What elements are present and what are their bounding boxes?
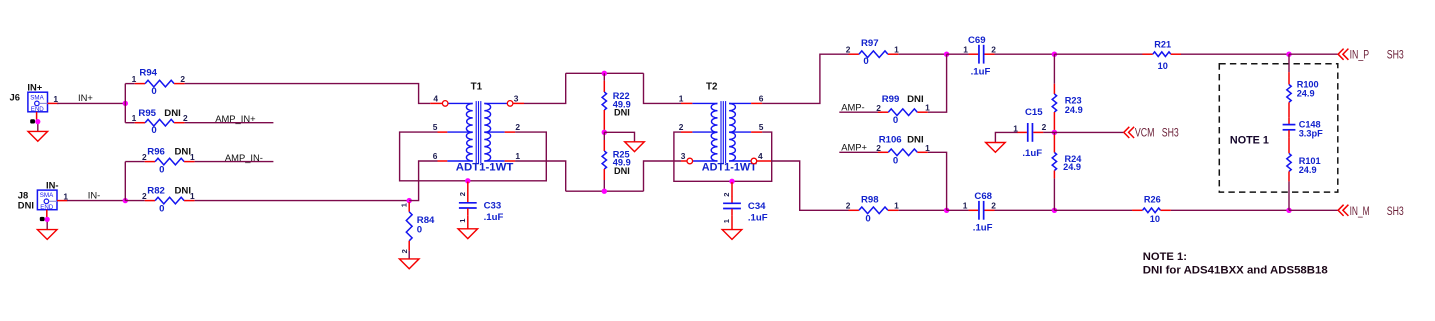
- wire R24 top: [1053, 132, 1055, 134]
- svg-text:24.9: 24.9: [1065, 105, 1083, 115]
- junction node top: [944, 52, 949, 57]
- svg-text:R98: R98: [861, 194, 879, 205]
- wire T2 pin2 loop: [674, 132, 772, 181]
- R100 refdes: [1297, 80, 1319, 90]
- svg-text:0: 0: [151, 86, 156, 97]
- IN_M label: [1350, 204, 1370, 218]
- svg-text:.1uF: .1uF: [973, 222, 993, 233]
- R22 DNI: [614, 108, 630, 118]
- C68 pin2 number: [991, 200, 996, 210]
- resistor R97: [849, 51, 899, 58]
- R84 refdes: [417, 215, 435, 226]
- wire node to C68: [947, 209, 969, 211]
- C33 refdes: [484, 201, 502, 212]
- svg-text:24.9: 24.9: [1063, 162, 1081, 172]
- wire R24 bottom: [1053, 178, 1055, 210]
- wire net AMP_IN-: [195, 161, 274, 163]
- J6 pin 1 number: [53, 94, 58, 104]
- svg-text:0: 0: [159, 203, 164, 214]
- svg-text:1: 1: [190, 152, 195, 162]
- R106 refdes: [879, 135, 902, 146]
- T2 pin1 lead: [681, 102, 718, 104]
- T2 pin2 number: [679, 122, 684, 132]
- wire node to T1 pin6: [409, 161, 437, 201]
- wire R82 to R84 node: [195, 200, 410, 202]
- R24 value 24.9: [1063, 162, 1081, 172]
- R82 refdes: [147, 185, 165, 196]
- net label AMP_IN-: [225, 152, 263, 163]
- T2 pin5 lead: [729, 131, 762, 133]
- wire R98 to C68 node: [899, 209, 947, 211]
- junction node IN_M: [1286, 208, 1291, 213]
- svg-text:AMP-: AMP-: [841, 102, 864, 113]
- svg-text:5: 5: [433, 122, 438, 132]
- svg-text:1: 1: [53, 94, 58, 104]
- svg-text:2: 2: [679, 122, 684, 132]
- wire R21 to IN_P node: [1181, 53, 1289, 55]
- svg-text:0: 0: [865, 213, 870, 224]
- R100 value 24.9: [1297, 89, 1315, 99]
- svg-text:0: 0: [151, 125, 156, 136]
- junction node R22/R25 mid: [602, 130, 607, 135]
- wire to IN_P connector: [1289, 53, 1338, 55]
- svg-text:1: 1: [63, 191, 68, 201]
- junction node R23 top: [1052, 52, 1057, 57]
- wire R101 to IN_M node: [1288, 181, 1290, 210]
- svg-text:4: 4: [433, 94, 438, 104]
- svg-text:2: 2: [142, 152, 147, 162]
- R101 refdes: [1299, 156, 1321, 166]
- junction node C34: [729, 179, 734, 184]
- wire net AMP+: [839, 151, 882, 153]
- svg-text:10: 10: [1158, 61, 1168, 71]
- R96 value 0: [159, 164, 164, 175]
- svg-text:1: 1: [679, 94, 684, 104]
- wire node to C69: [947, 53, 969, 55]
- T1 pin6 number: [433, 151, 438, 161]
- R96 pin2 number: [142, 152, 147, 162]
- T1 pin2 lead: [484, 131, 515, 133]
- svg-text:1: 1: [925, 103, 930, 113]
- wire R82 left: [125, 200, 144, 202]
- R101 value 24.9: [1299, 165, 1317, 175]
- svg-text:AMP+: AMP+: [841, 142, 867, 153]
- svg-text:2: 2: [458, 192, 467, 196]
- svg-text:R97: R97: [861, 38, 879, 49]
- R99 value 0: [893, 115, 898, 126]
- svg-text:.1uF: .1uF: [484, 212, 504, 223]
- R94 value 0: [151, 86, 156, 97]
- wire R97 to C69 node: [899, 53, 947, 55]
- svg-text:IN_M: IN_M: [1350, 204, 1370, 218]
- ground at R22/R25 midpoint: [625, 142, 645, 152]
- svg-text:0: 0: [417, 225, 422, 236]
- junction node IN-: [123, 198, 128, 203]
- svg-text:C33: C33: [484, 201, 502, 212]
- svg-text:SMA: SMA: [40, 192, 54, 199]
- T1 part number ADT1-1WT: [456, 161, 514, 173]
- R82 pin2 number: [142, 191, 147, 201]
- J6 dni blob: [30, 119, 35, 123]
- R23 refdes: [1065, 95, 1082, 105]
- wire T1 pin1 to bottom rail: [515, 161, 566, 191]
- ground below J6: [28, 131, 48, 141]
- wire mid to ground: [604, 132, 634, 142]
- R84 pin1 rotated number: [400, 202, 409, 207]
- resistor R101 (note1): [1287, 153, 1291, 181]
- C69 value .1uF: [971, 67, 991, 78]
- wire R100 to C148: [1288, 113, 1290, 118]
- wire net IN-: [67, 200, 125, 202]
- svg-text:R21: R21: [1154, 40, 1171, 50]
- svg-text:AMP_IN+: AMP_IN+: [215, 113, 256, 124]
- svg-text:1: 1: [963, 200, 968, 210]
- wire T1 pin5 loop: [400, 132, 547, 181]
- J8 dni blob: [40, 217, 45, 221]
- svg-text:2: 2: [142, 191, 147, 201]
- wire node to R26: [1054, 209, 1132, 211]
- wire bottom rail: [566, 190, 644, 192]
- C33 ground stub: [467, 215, 469, 229]
- capacitor C148 (note1): [1283, 117, 1296, 137]
- capacitor C33: [459, 196, 477, 216]
- wire net AMP_IN+: [185, 122, 274, 124]
- svg-text:DNI: DNI: [907, 135, 924, 146]
- svg-text:R95: R95: [138, 108, 156, 119]
- R94 pin1 number: [132, 74, 137, 84]
- resistor R94: [135, 80, 185, 87]
- T1 pin4 circle: [442, 101, 448, 107]
- svg-text:DNI: DNI: [907, 94, 924, 105]
- wire T2 pin6 to R97: [762, 54, 849, 103]
- ground at C15: [986, 143, 1006, 153]
- svg-text:10: 10: [1150, 214, 1160, 224]
- svg-text:SH3: SH3: [1387, 48, 1404, 62]
- T2 pin4 circle: [751, 158, 757, 164]
- svg-text:C69: C69: [968, 35, 986, 46]
- R95 value 0: [151, 125, 156, 136]
- wire net IN+: [57, 102, 125, 104]
- ground below J8: [37, 230, 57, 240]
- C15 refdes: [1025, 107, 1043, 118]
- C33 pin1 rotated number: [458, 218, 467, 223]
- svg-text:T1: T1: [471, 81, 483, 92]
- resistor R99 (DNI): [878, 109, 928, 116]
- R95 DNI: [164, 108, 181, 119]
- junction at J8 ground: [45, 217, 50, 222]
- svg-text:2: 2: [1042, 122, 1047, 132]
- IN_M sheet ref SH3: [1387, 204, 1404, 218]
- T2 refdes: [706, 81, 718, 92]
- C34 pin1 rotated number: [722, 218, 731, 223]
- R82 pin1 number: [190, 191, 195, 201]
- C148 value 3.3pF: [1299, 129, 1323, 139]
- svg-text:0: 0: [893, 115, 898, 126]
- R99 refdes: [882, 94, 900, 105]
- svg-text:2: 2: [183, 113, 188, 123]
- wire T1 pin3 to top rail: [524, 73, 566, 103]
- wire R26 to IN_M node: [1171, 209, 1289, 211]
- resistor R21: [1142, 52, 1181, 57]
- T2 pin3 lead: [681, 160, 718, 162]
- junction node C33: [465, 178, 470, 183]
- wire top rail: [566, 72, 644, 74]
- svg-text:2: 2: [991, 45, 996, 55]
- off-page connector IN_M: [1338, 205, 1348, 216]
- svg-text:6: 6: [433, 151, 438, 161]
- T1 pin2 number: [515, 122, 520, 132]
- svg-text:IN-: IN-: [46, 179, 59, 190]
- C69 pin1 number: [963, 45, 968, 55]
- svg-text:0: 0: [159, 164, 164, 175]
- T1 pin5 number: [433, 122, 438, 132]
- wire node to R21: [1054, 53, 1142, 55]
- J8 pin 1 stub: [57, 200, 67, 202]
- wire R25 bottom filler: [603, 180, 605, 191]
- T2 pin3 number: [681, 151, 686, 161]
- capacitor C69: [969, 45, 995, 64]
- svg-text:3.3pF: 3.3pF: [1299, 129, 1323, 139]
- connector J8 (SMA): [37, 190, 57, 211]
- resistor R24: [1052, 135, 1056, 179]
- resistor R100 (note1): [1287, 72, 1291, 112]
- wire T2 pin4 to R98: [771, 161, 849, 210]
- T1 pin6 lead: [438, 160, 473, 162]
- wire R84 to ground: [408, 251, 410, 259]
- junction node R25 bottom: [602, 189, 607, 194]
- resistor R106 (DNI): [878, 149, 928, 156]
- svg-text:IN-: IN-: [88, 190, 101, 201]
- C34 top stub: [731, 182, 733, 196]
- R26 refdes: [1144, 194, 1161, 204]
- R84 pin2 rotated number: [400, 249, 409, 253]
- T1 refdes: [471, 81, 483, 92]
- svg-text:2: 2: [180, 74, 185, 84]
- T1 pin1 lead: [484, 160, 515, 162]
- T2 pin1 number: [679, 94, 684, 104]
- VCM label: [1135, 125, 1155, 139]
- off-page connector IN_P: [1338, 49, 1348, 60]
- svg-text:DNI: DNI: [18, 199, 34, 210]
- svg-text:0: 0: [863, 56, 868, 67]
- T1 pin5 lead: [438, 131, 473, 133]
- R82 value 0: [159, 203, 164, 214]
- note text title: [1143, 251, 1187, 263]
- wire R25 top filler: [603, 132, 605, 140]
- svg-text:24.9: 24.9: [1299, 165, 1317, 175]
- R21 value 10: [1158, 61, 1168, 71]
- svg-text:2: 2: [400, 249, 409, 253]
- wire R94 to T1 pin4: [185, 84, 431, 104]
- transformer T1 symbol: [466, 101, 490, 163]
- wire R96 left: [125, 161, 144, 163]
- C34 value .1uF: [748, 213, 768, 224]
- wire C148 to R101: [1288, 137, 1290, 153]
- svg-text:1: 1: [925, 143, 930, 153]
- svg-text:2: 2: [515, 122, 520, 132]
- J8 DNI note: [18, 199, 34, 210]
- svg-text:2: 2: [722, 192, 731, 196]
- R95 pin2 number: [183, 113, 188, 123]
- R23 value 24.9: [1065, 105, 1083, 115]
- resistor R96 (DNI): [145, 158, 195, 165]
- wire IN_P node down: [1288, 54, 1290, 72]
- T2 part number ADT1-1WT: [702, 161, 758, 173]
- svg-text:1: 1: [963, 45, 968, 55]
- svg-text:NOTE 1:: NOTE 1:: [1143, 251, 1187, 263]
- C69 refdes: [968, 35, 986, 46]
- net label IN-: [88, 190, 101, 201]
- R106 DNI: [907, 135, 924, 146]
- off-page connector VCM: [1124, 127, 1134, 138]
- R99 pin2 number: [876, 103, 881, 113]
- C68 refdes: [974, 191, 992, 202]
- T2 pin5 number: [759, 122, 764, 132]
- svg-text:DNI: DNI: [614, 166, 630, 176]
- svg-text:IN+: IN+: [27, 81, 42, 92]
- junction node IN+: [123, 101, 128, 106]
- wire C15 to VCM node: [1043, 131, 1054, 133]
- wire net AMP-: [839, 111, 882, 113]
- resistor R95 (DNI): [135, 119, 185, 126]
- J6 title IN+: [27, 81, 42, 92]
- svg-text:NOTE 1: NOTE 1: [1230, 134, 1269, 146]
- junction node IN_P: [1286, 52, 1291, 57]
- wire IN- to R96: [124, 162, 126, 201]
- IN_P sheet ref SH3: [1387, 48, 1404, 62]
- R98 value 0: [865, 213, 870, 224]
- resistor R25 (DNI): [602, 140, 606, 180]
- svg-text:DNI: DNI: [175, 185, 192, 196]
- R94 refdes: [139, 68, 157, 79]
- wire C68 to R24 node: [995, 209, 1055, 211]
- R95 refdes: [138, 108, 156, 119]
- svg-text:2: 2: [876, 103, 881, 113]
- svg-text:DNI for ADS41BXX and ADS58B18: DNI for ADS41BXX and ADS58B18: [1143, 265, 1328, 277]
- svg-text:2: 2: [991, 200, 996, 210]
- wire R95 left: [125, 122, 134, 124]
- note 1 dashed box: [1219, 64, 1338, 192]
- svg-text:6: 6: [759, 94, 764, 104]
- svg-text:IN+: IN+: [78, 92, 93, 103]
- T1 pin3 lead: [484, 102, 524, 104]
- svg-text:1: 1: [515, 151, 520, 161]
- svg-text:.1uF: .1uF: [748, 213, 768, 224]
- C15 pin1 number: [1013, 124, 1018, 134]
- T1 pin4 number: [433, 94, 438, 104]
- R106 value 0: [893, 156, 898, 167]
- C15 value .1uF: [1022, 148, 1042, 159]
- resistor R82 (DNI): [145, 197, 195, 204]
- T1 pin4 lead: [430, 102, 473, 104]
- R97 pin1 number: [894, 45, 899, 55]
- wire R22 bottom filler: [603, 131, 605, 133]
- svg-text:AMP_IN-: AMP_IN-: [225, 152, 263, 163]
- T1 pin1 number: [515, 151, 520, 161]
- capacitor C15: [1017, 123, 1043, 142]
- R96 DNI: [175, 146, 192, 157]
- J8 pin 1 number: [63, 191, 68, 201]
- J6 refdes: [10, 91, 20, 102]
- C68 value .1uF: [973, 222, 993, 233]
- R99 pin1 number: [925, 103, 930, 113]
- net label IN+: [78, 92, 93, 103]
- svg-text:R96: R96: [147, 146, 165, 157]
- J8 ground stub: [46, 210, 48, 230]
- C15 pin2 number: [1042, 122, 1047, 132]
- wire C69 to R23 node: [995, 53, 1055, 55]
- svg-text:0: 0: [893, 156, 898, 167]
- resistor R22 (DNI): [602, 81, 606, 131]
- R106 pin2 number: [876, 143, 881, 153]
- net label AMP_IN+: [215, 113, 256, 124]
- svg-text:.1uF: .1uF: [1022, 148, 1042, 159]
- junction node R24 bottom: [1052, 208, 1057, 213]
- svg-text:R82: R82: [147, 185, 165, 196]
- connector J6 (SMA): [28, 92, 48, 113]
- svg-text:1: 1: [190, 191, 195, 201]
- svg-text:R26: R26: [1144, 194, 1161, 204]
- svg-text:DNI: DNI: [164, 108, 181, 119]
- svg-text:C68: C68: [974, 191, 992, 202]
- note text body: [1143, 265, 1328, 277]
- svg-text:1: 1: [894, 45, 899, 55]
- svg-text:1: 1: [132, 113, 137, 123]
- ground below C34: [722, 230, 742, 240]
- R25 refdes: [613, 149, 630, 159]
- svg-text:VCM: VCM: [1135, 125, 1155, 139]
- svg-text:2: 2: [876, 143, 881, 153]
- C68 pin1 number: [963, 200, 968, 210]
- IN_P label: [1350, 48, 1370, 62]
- svg-text:R99: R99: [882, 94, 900, 105]
- T2 pin6 number: [759, 94, 764, 104]
- C148 refdes: [1299, 120, 1321, 130]
- svg-text:1: 1: [132, 74, 137, 84]
- R96 pin1 number: [190, 152, 195, 162]
- C34 pin2 rotated number: [722, 192, 731, 196]
- J8 title IN-: [46, 179, 59, 190]
- R84 value 0: [417, 225, 422, 236]
- svg-text:ADT1-1WT: ADT1-1WT: [702, 161, 758, 173]
- resistor R23: [1052, 84, 1056, 130]
- wire R22 top filler: [603, 73, 605, 80]
- R25 value 49.9: [613, 158, 631, 168]
- capacitor C68: [969, 201, 995, 220]
- J8 refdes: [18, 190, 28, 201]
- wire rail to T2 pin3: [644, 161, 682, 191]
- R94 pin2 number: [180, 74, 185, 84]
- C34 refdes: [748, 201, 766, 212]
- R98 pin2 number: [846, 200, 851, 210]
- svg-text:ADT1-1WT: ADT1-1WT: [456, 161, 514, 173]
- wire R23 bottom: [1053, 130, 1055, 132]
- svg-text:SH3: SH3: [1387, 204, 1404, 218]
- R99 DNI: [907, 94, 924, 105]
- svg-text:24.9: 24.9: [1297, 89, 1315, 99]
- svg-text:3: 3: [514, 94, 519, 104]
- svg-text:T2: T2: [706, 81, 718, 92]
- R97 pin2 number: [846, 45, 851, 55]
- svg-text:DNI: DNI: [614, 108, 630, 118]
- wire rail to T2 pin1: [644, 73, 682, 103]
- junction at J6 ground: [35, 119, 40, 124]
- wire R23 top: [1053, 54, 1055, 83]
- R22 value 49.9: [613, 99, 631, 109]
- wire R99 to top node: [928, 54, 947, 112]
- svg-text:3: 3: [681, 151, 686, 161]
- T2 pin4 lead: [729, 160, 771, 162]
